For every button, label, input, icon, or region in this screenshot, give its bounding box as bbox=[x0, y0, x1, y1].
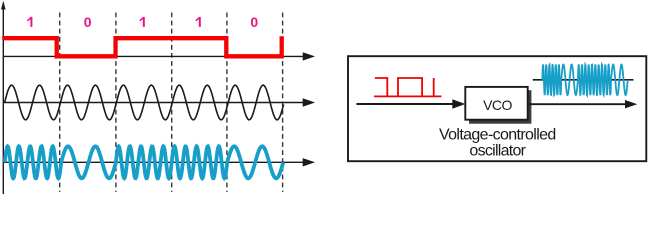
svg-text:0: 0 bbox=[84, 14, 92, 30]
svg-text:oscillator: oscillator bbox=[469, 142, 526, 159]
svg-text:Voltage-controlled: Voltage-controlled bbox=[439, 127, 556, 144]
svg-text:0: 0 bbox=[250, 14, 258, 30]
svg-text:VCO: VCO bbox=[483, 97, 512, 113]
